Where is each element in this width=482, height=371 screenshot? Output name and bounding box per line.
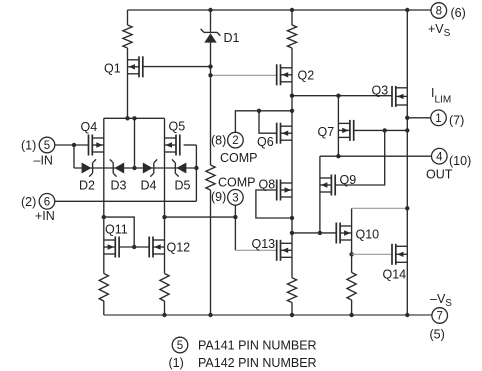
transistor Q13 — [277, 240, 292, 261]
wire Q5 outer vertical — [164, 118, 166, 273]
svg-text:6: 6 — [44, 196, 50, 208]
label (6) — [451, 6, 466, 20]
wire pin1 lead — [407, 117, 430, 119]
label COMP lower — [218, 175, 256, 189]
node bottom rail Q13 junction — [290, 313, 294, 317]
svg-text:Q2: Q2 — [298, 69, 315, 83]
pin circle 8 (+Vs) — [431, 3, 447, 19]
label (2) — [21, 195, 36, 209]
resistor R (Q1 drain load) — [123, 25, 132, 48]
svg-text:(6): (6) — [451, 6, 466, 20]
pin circle 5 (-IN) — [39, 137, 55, 153]
svg-text:ILIM: ILIM — [431, 86, 451, 106]
label -Vs — [430, 292, 452, 309]
node diode row mid junction — [132, 166, 136, 170]
node bottom rail Q10 junction — [349, 313, 353, 317]
label D5 — [175, 179, 191, 193]
node Q1 source to bus — [125, 116, 129, 120]
wire Q7 gate to ILIM rail — [354, 129, 408, 131]
transistor Q4 — [89, 135, 104, 156]
label +IN — [35, 209, 55, 223]
wire OUT bus — [320, 155, 432, 157]
wire top +Vs rail — [128, 9, 432, 11]
label (7) — [449, 114, 464, 128]
label Q11 — [105, 223, 128, 237]
svg-text:+IN: +IN — [35, 209, 55, 223]
wire D1 rail to bottom rail — [210, 190, 212, 315]
node Q7 gate aux junction — [383, 128, 387, 132]
resistor R (Q10 source) — [347, 273, 356, 301]
wire COMP pin2 link — [235, 111, 292, 133]
transistor Q3 — [392, 86, 407, 107]
node pin1 rail junction — [405, 116, 409, 120]
svg-text:(1): (1) — [169, 356, 184, 370]
wire Q2 drain bus to Q3 gate — [292, 95, 392, 97]
svg-text:Q12: Q12 — [167, 241, 191, 255]
svg-text:2: 2 — [232, 135, 238, 147]
resistor R (Q13 source) — [287, 278, 296, 303]
node Q2 source junction — [290, 94, 294, 98]
label (1) legend — [169, 356, 184, 370]
svg-text:Q14: Q14 — [383, 268, 407, 282]
label Q8 — [259, 178, 276, 192]
svg-text:3: 3 — [232, 192, 238, 204]
wire Q9 outer vertical — [319, 156, 321, 233]
node Q7 source to OUT bus — [336, 154, 340, 158]
diode D4 — [143, 159, 157, 176]
wire Q12 drain to COMP node — [165, 216, 236, 218]
wire Q10 outer vertical — [351, 208, 353, 272]
label Q6 — [257, 135, 274, 149]
transistor Q5 — [165, 135, 180, 156]
node Q6 gate branch junction — [257, 109, 261, 113]
svg-text:5: 5 — [177, 340, 183, 352]
wire Q11 gate to Q12 gate — [119, 246, 149, 248]
svg-text:(1): (1) — [21, 139, 36, 153]
wire Q13 gate lead — [235, 249, 276, 251]
label Q2 — [298, 69, 315, 83]
wire right rail — [406, 10, 408, 315]
pin circle 4 (OUT) — [432, 148, 448, 164]
wire Q2 gate lead — [211, 74, 277, 76]
wire Q1 outer vertical — [127, 48, 129, 118]
label Q5 — [169, 120, 186, 134]
label Q4 — [81, 120, 98, 134]
wire Q10 resistor to rail — [351, 300, 353, 315]
svg-text:D5: D5 — [175, 179, 191, 193]
svg-text:Q11: Q11 — [105, 223, 128, 237]
svg-text:COMP: COMP — [220, 151, 258, 165]
transistor Q8 — [277, 180, 292, 201]
svg-text:D2: D2 — [79, 179, 95, 193]
pin circle 1 (ILIM) — [431, 110, 447, 126]
label Q1 — [104, 62, 121, 76]
wire -IN to Q4 gate — [55, 144, 89, 146]
wire bottom -Vs rail — [104, 314, 432, 316]
label Q13 — [252, 237, 276, 251]
node bottom rail Q12 junction — [162, 313, 166, 317]
wire Q4 outer vertical — [103, 118, 105, 273]
wire Q12 resistor to rail — [164, 301, 166, 315]
wire +IN vertical — [195, 145, 197, 201]
svg-text:PA142 PIN NUMBER: PA142 PIN NUMBER — [198, 356, 317, 370]
wire input bus Q4-Q5 — [104, 117, 165, 119]
node bottom rail right junction — [405, 313, 409, 317]
svg-text:4: 4 — [436, 151, 443, 163]
svg-text:1: 1 — [435, 113, 441, 125]
wire resistor top lead — [127, 10, 129, 25]
label D3 — [111, 179, 127, 193]
svg-text:–IN: –IN — [34, 154, 53, 168]
node top rail / Q2 resistor junction — [290, 8, 294, 12]
svg-text:8: 8 — [436, 6, 442, 18]
wire Q6 gate lead — [259, 111, 277, 133]
wire Q13 resistor to rail — [291, 303, 293, 316]
node top rail / right rail junction — [405, 8, 409, 12]
label COMP upper — [220, 151, 258, 165]
node Q14 gate branch junction — [349, 252, 353, 256]
transistor Q14 — [392, 244, 407, 265]
wire Q5 gate lead — [184, 144, 197, 146]
wire bus mid to diode row — [134, 118, 136, 168]
wire Q9 gate loop — [335, 130, 385, 185]
wire pin3 down — [234, 205, 236, 250]
transistor Q12 — [149, 237, 164, 258]
transistor Q10 — [336, 223, 351, 244]
node Q12 drain tie junction — [162, 215, 166, 219]
svg-text:PA141 PIN NUMBER: PA141 PIN NUMBER — [198, 339, 317, 353]
wire +IN to Q5 gate rail — [55, 200, 197, 202]
svg-text:(10): (10) — [449, 154, 471, 168]
transistor Q1 — [128, 56, 143, 77]
label (1) — [21, 139, 36, 153]
node bottom rail D1 junction — [208, 313, 212, 317]
svg-text:COMP: COMP — [218, 175, 256, 189]
node mirror bus left junction — [290, 231, 294, 235]
diode D5 — [172, 159, 186, 176]
svg-text:Q5: Q5 — [169, 120, 186, 134]
svg-text:Q4: Q4 — [81, 120, 98, 134]
label Q12 — [167, 241, 191, 255]
pin circle 6 (+IN) — [39, 194, 55, 210]
diode D2 — [82, 159, 96, 176]
node top rail / D1 junction — [208, 8, 212, 12]
pin circle 3 (COMP) — [228, 190, 244, 206]
node Q11/Q12 gate wire junction — [132, 245, 136, 249]
label +Vs — [428, 22, 451, 39]
transistor Q2 — [277, 64, 292, 85]
wire Q14 gate lead — [352, 253, 392, 255]
svg-text:–VS: –VS — [430, 292, 452, 309]
pin circle 7 (-Vs) — [432, 308, 448, 324]
label PA142 legend — [198, 356, 317, 370]
label Q14 — [383, 268, 407, 282]
wire Q2/Q6/Q8/Q13 outer vertical — [291, 48, 293, 278]
label Q3 — [372, 84, 389, 98]
label Q7 — [318, 125, 335, 139]
wire Q10 drain link to rail — [352, 207, 408, 209]
node -IN junction — [72, 143, 76, 147]
node COMP pin3 junction — [233, 215, 237, 219]
transistor Q6 — [277, 123, 292, 144]
node Q7 drain junction — [336, 94, 340, 98]
svg-text:(8): (8) — [211, 134, 226, 148]
resistor R (Q12 source) — [160, 274, 169, 302]
label D2 — [79, 179, 95, 193]
svg-text:(5): (5) — [430, 328, 445, 342]
svg-text:D4: D4 — [141, 179, 157, 193]
wire Q11 resistor to rail — [103, 301, 105, 315]
wire Q7 outer vertical — [337, 96, 339, 157]
node Q10 link rail junction — [405, 206, 409, 210]
svg-text:Q10: Q10 — [356, 228, 380, 242]
node Q8 source tie junction — [290, 216, 294, 220]
label D1 — [224, 31, 240, 45]
svg-text:+VS: +VS — [428, 22, 451, 39]
diode D3 — [110, 159, 124, 176]
svg-text:Q3: Q3 — [372, 84, 389, 98]
svg-text:(7): (7) — [449, 114, 464, 128]
label (10) — [449, 154, 471, 168]
wire Q8 gate tie — [256, 190, 292, 218]
wire mirror bus — [292, 232, 337, 234]
svg-text:D1: D1 — [224, 31, 240, 45]
label PA141 legend — [198, 339, 317, 353]
pin circle 2 (COMP) — [228, 132, 244, 148]
label (9) — [211, 190, 226, 204]
node Q9 source junction — [318, 231, 322, 235]
wire Q1 gate to D1 node — [143, 66, 211, 68]
wire -IN down to D2 — [73, 145, 75, 168]
zener diode D1 — [201, 10, 221, 165]
svg-text:5: 5 — [44, 140, 50, 152]
node Q1 gate / D1 rail junction — [208, 64, 212, 68]
wire Q11 drain-gate tie — [104, 217, 134, 247]
resistor R (Q2 drain load) — [287, 25, 296, 48]
label Q10 — [356, 228, 380, 242]
node Q7 gate rail junction — [405, 128, 409, 132]
wire diode row — [74, 167, 196, 169]
resistor R (Q11 source) — [99, 274, 108, 302]
node Q2 gate / D1 rail junction — [208, 73, 212, 77]
node Q2 outer COMP junction — [290, 109, 294, 113]
node bus mid junction — [132, 116, 136, 120]
label OUT — [426, 168, 453, 182]
svg-text:(2): (2) — [21, 195, 36, 209]
svg-text:Q6: Q6 — [257, 135, 274, 149]
wire Q2 resistor top lead — [291, 10, 293, 25]
label -IN — [34, 154, 53, 168]
svg-text:D3: D3 — [111, 179, 127, 193]
resistor R (compensation) — [206, 165, 215, 190]
transistor Q7 — [338, 120, 353, 141]
legend pin circle 5 — [172, 337, 188, 353]
label (8) — [211, 134, 226, 148]
node Q11 drain tie junction — [102, 215, 106, 219]
label (5) under pin7 — [430, 328, 445, 342]
svg-text:Q13: Q13 — [252, 237, 276, 251]
node diode row right junction — [194, 166, 198, 170]
svg-text:OUT: OUT — [426, 168, 453, 182]
label D4 — [141, 179, 157, 193]
label Q9 — [340, 173, 357, 187]
label ILIM — [431, 86, 451, 106]
svg-text:7: 7 — [436, 311, 442, 323]
svg-text:Q7: Q7 — [318, 125, 335, 139]
transistor Q9 — [320, 175, 335, 196]
svg-text:Q1: Q1 — [104, 62, 121, 76]
transistor Q11 — [104, 237, 119, 258]
svg-text:(9): (9) — [211, 190, 226, 204]
